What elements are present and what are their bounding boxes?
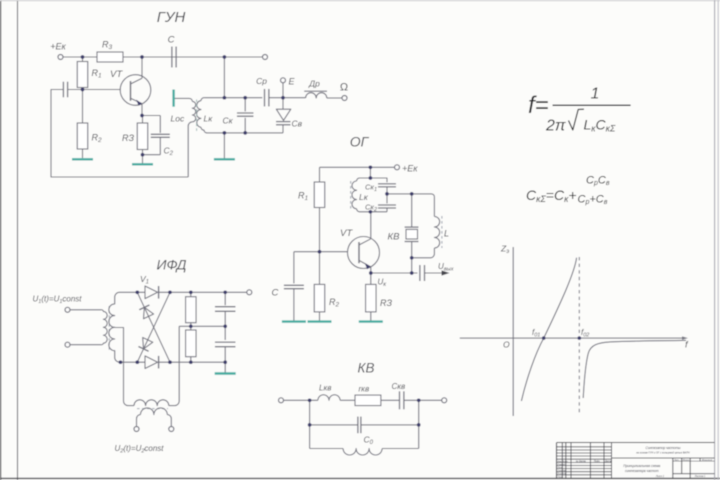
svg-text:RЗ: RЗ bbox=[122, 133, 134, 143]
svg-text:ИФД: ИФД bbox=[156, 257, 186, 273]
svg-text:Lк: Lк bbox=[359, 192, 369, 202]
svg-text:Масштаб: Масштаб bbox=[702, 460, 713, 462]
svg-text:L: L bbox=[444, 229, 449, 239]
svg-text:Утв.: Утв. bbox=[558, 476, 563, 478]
svg-text:Дата: Дата bbox=[604, 460, 612, 463]
svg-text:КВ: КВ bbox=[388, 232, 401, 243]
svg-text:ОГ: ОГ bbox=[350, 134, 370, 150]
svg-text:RЗ: RЗ bbox=[380, 298, 392, 308]
svg-text:Н.контр.: Н.контр. bbox=[558, 473, 568, 475]
svg-text:VT: VT bbox=[340, 228, 353, 239]
svg-text:Lкв: Lкв bbox=[319, 384, 331, 393]
svg-text:E: E bbox=[289, 77, 296, 87]
svg-text:на основе ГУН и ОГ с кольцевой: на основе ГУН и ОГ с кольцевой цепью ФАП… bbox=[636, 451, 690, 454]
svg-text:CкΣ=Cк+: CкΣ=Cк+ bbox=[526, 187, 577, 204]
svg-text:Др: Др bbox=[308, 79, 320, 89]
svg-text:Пров.: Пров. bbox=[558, 467, 564, 469]
svg-text:VT: VT bbox=[110, 69, 123, 80]
svg-text:Cв: Cв bbox=[292, 119, 303, 129]
svg-text:+Ек: +Ек bbox=[50, 42, 66, 52]
svg-text:rкв: rкв bbox=[359, 385, 370, 394]
svg-text:Принципиальная схема: Принципиальная схема bbox=[623, 464, 660, 468]
svg-text:Cр+Cв: Cр+Cв bbox=[578, 194, 608, 207]
svg-text:O: O bbox=[503, 340, 510, 350]
svg-text:ГУН: ГУН bbox=[157, 9, 186, 26]
svg-text:Ω: Ω bbox=[340, 82, 348, 94]
svg-text:Лит.: Лит. bbox=[673, 460, 680, 462]
svg-text:1: 1 bbox=[591, 86, 600, 103]
svg-text:f=: f= bbox=[528, 92, 549, 119]
svg-text:2π: 2π bbox=[545, 118, 566, 135]
svg-text:Lк: Lк bbox=[204, 114, 214, 124]
svg-text:Подп.: Подп. bbox=[594, 460, 601, 463]
svg-text:Разраб.: Разраб. bbox=[558, 464, 566, 466]
svg-text:Масса: Масса bbox=[683, 460, 690, 462]
svg-text:№ докум.: № докум. bbox=[576, 460, 587, 463]
svg-text:Синтезатор частоты: Синтезатор частоты bbox=[646, 446, 682, 450]
svg-text:Cк: Cк bbox=[223, 116, 234, 126]
svg-text:Изм Лист: Изм Лист bbox=[558, 461, 568, 463]
svg-text:синтезатора частот: синтезатора частот bbox=[625, 469, 659, 473]
svg-text:Cр: Cр bbox=[256, 76, 267, 86]
svg-text:Loc: Loc bbox=[171, 114, 185, 124]
svg-text:Т.контр.: Т.контр. bbox=[558, 470, 567, 472]
svg-text:+Ек: +Ек bbox=[402, 164, 418, 174]
svg-text:Листов 1: Листов 1 bbox=[694, 475, 706, 478]
svg-text:C: C bbox=[272, 288, 279, 299]
svg-text:C: C bbox=[168, 35, 175, 46]
svg-text:Cкв: Cкв bbox=[392, 382, 406, 391]
svg-text:Лист 1: Лист 1 bbox=[655, 475, 665, 478]
svg-text:КВ: КВ bbox=[358, 361, 375, 376]
